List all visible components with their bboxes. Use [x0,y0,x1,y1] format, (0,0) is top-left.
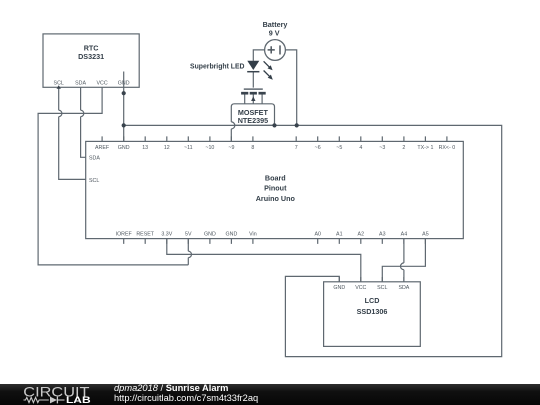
svg-text:LCD: LCD [365,296,380,305]
svg-text:7: 7 [295,145,298,151]
svg-text:RX<- 0: RX<- 0 [439,145,456,151]
svg-text:~5: ~5 [336,145,342,151]
MOSFET Q1 body arrow [251,96,255,101]
wire battery plus to LED [253,50,264,61]
svg-text:~10: ~10 [205,145,214,151]
svg-text:Vin: Vin [249,231,257,237]
svg-text:12: 12 [164,145,170,151]
wire ground rail [124,125,502,356]
MOSFET Q1 label box [231,104,274,126]
svg-text:SDA: SDA [89,155,100,161]
svg-text:SCL: SCL [89,178,99,184]
RTC SCL pin arrow [57,85,61,89]
svg-text:DS3231: DS3231 [78,52,104,61]
MOSFET Q1 gate bar [244,88,263,90]
battery V1 minus bar [279,45,281,54]
wire LCD SCL to board A5 [382,239,425,282]
wire RTC GND to board GND [123,72,125,142]
svg-text:RESET: RESET [136,231,154,237]
svg-text:GND: GND [226,231,238,237]
RTC U1 title [78,20,387,316]
svg-text:SSD1306: SSD1306 [357,307,388,316]
junction dot ground rail at GND wire [122,123,126,127]
LED D1 triangle [247,61,259,70]
wire board A4 to LCD SDA [401,239,404,282]
battery V1 symbol [265,40,286,61]
RTC U1 box [43,34,139,87]
svg-text:dpma2018 / Sunrise Alarm: dpma2018 / Sunrise Alarm [114,383,228,393]
svg-text:VCC: VCC [97,81,108,87]
svg-text:A2: A2 [358,231,365,237]
svg-text:~9: ~9 [228,145,234,151]
board U2 top pin labels [95,145,455,151]
wire MOSFET gate to board pin 9 [231,122,234,141]
LED D1 light arrow 2 [264,71,270,77]
svg-text:3.3V: 3.3V [161,231,172,237]
svg-text:http://circuitlab.com/c7sm4t33: http://circuitlab.com/c7sm4t33fr2aq [114,393,258,403]
MOSFET Q1 pins [245,95,262,104]
svg-text:VCC: VCC [355,285,366,291]
svg-text:9 V: 9 V [269,29,280,38]
wire board 3.3V to LCD VCC [167,239,361,282]
svg-text:13: 13 [142,145,148,151]
battery V1 plus sign [268,45,280,54]
svg-text:GND: GND [118,145,130,151]
junction dot MOSFET source on rail [272,123,276,127]
board U2 Arduino Uno box [86,141,464,238]
svg-text:A1: A1 [336,231,343,237]
svg-text:~11: ~11 [184,145,193,151]
svg-text:Superbright LED: Superbright LED [190,62,245,71]
LED D1 cathode bar [247,71,259,73]
svg-text:GND: GND [118,81,130,87]
junction dot battery minus on rail [295,123,299,127]
CircuitLab logo resistor zigzag [24,397,49,402]
LCD U3 box [324,282,421,347]
CircuitLab logo diode [50,397,57,404]
svg-text:Pinout: Pinout [264,184,287,193]
svg-text:2: 2 [402,145,405,151]
wire LED cathode to MOSFET [252,72,254,88]
board U2 bottom pin labels [116,231,429,237]
LCD U3 pin labels [333,285,409,291]
svg-text:~6: ~6 [315,145,321,151]
svg-text:GND: GND [333,285,345,291]
wire RTC SCL to board SCL [59,87,86,179]
svg-text:5V: 5V [185,231,192,237]
wire RTC SDA to board SDA [81,87,86,157]
svg-text:SDA: SDA [75,81,86,87]
LED D1 light arrow 1 [264,61,273,79]
RTC U1 pin labels [54,81,130,87]
board bottom pin ticks [124,239,426,244]
svg-text:IOREF: IOREF [116,231,133,237]
svg-text:~3: ~3 [379,145,385,151]
svg-text:4: 4 [359,145,362,151]
svg-text:SCL: SCL [377,285,387,291]
svg-text:LAB: LAB [66,395,91,405]
svg-text:Board: Board [265,173,286,182]
svg-text:SDA: SDA [398,285,409,291]
svg-text:NTE2395: NTE2395 [238,116,268,125]
svg-text:A0: A0 [314,231,321,237]
board top pin ticks [102,136,447,141]
svg-text:GND: GND [204,231,216,237]
svg-text:Aruino Uno: Aruino Uno [256,194,296,203]
svg-text:A4: A4 [401,231,408,237]
wire RTC VCC to board 5V [38,87,191,265]
svg-text:A3: A3 [379,231,386,237]
svg-text:SCL: SCL [54,81,64,87]
LCD pin ticks [339,277,404,282]
svg-text:A5: A5 [422,231,429,237]
svg-text:8: 8 [251,145,254,151]
MOSFET Q1 channel bars [241,92,266,95]
junction dot RTC GND node [122,91,126,95]
svg-text:TX-> 1: TX-> 1 [417,145,433,151]
svg-text:AREF: AREF [95,145,110,151]
board U2 side pin labels [89,155,100,184]
wire battery minus to ground rail [285,50,296,126]
